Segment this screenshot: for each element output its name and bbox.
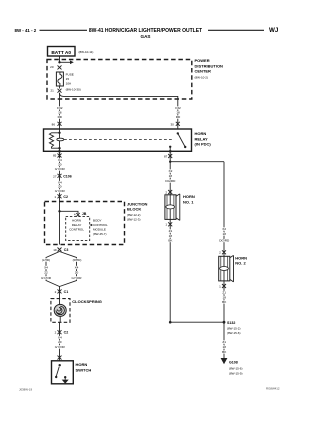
horn switch box — [52, 361, 74, 384]
svg-text:NO. 1: NO. 1 — [183, 199, 194, 204]
svg-text:DG/RD: DG/RD — [219, 239, 230, 243]
svg-text:8W - 41 - 2: 8W - 41 - 2 — [15, 28, 37, 33]
connector terminal at fuse bottom — [58, 89, 62, 93]
svg-text:18: 18 — [58, 111, 62, 115]
relay coil — [49, 133, 59, 148]
svg-text:(8W-15-6): (8W-15-6) — [227, 331, 240, 335]
svg-text:C3: C3 — [64, 248, 69, 252]
svg-text:Z1: Z1 — [222, 340, 226, 344]
svg-text:X2: X2 — [169, 169, 173, 173]
svg-text:FUSE: FUSE — [66, 73, 74, 77]
svg-text:(8W-10-2): (8W-10-2) — [195, 75, 208, 79]
wire through junction block — [59, 202, 61, 245]
svg-text:BATT A0: BATT A0 — [51, 50, 71, 56]
svg-text:X4: X4 — [75, 265, 79, 269]
svg-text:RELAY: RELAY — [72, 223, 82, 227]
svg-text:HORN: HORN — [76, 362, 88, 367]
svg-text:C106: C106 — [63, 175, 72, 179]
ground in horn switch — [62, 380, 69, 384]
svg-text:RD: RD — [58, 115, 63, 119]
svg-text:HORN: HORN — [183, 194, 195, 199]
svg-text:DISTRIBUTION: DISTRIBUTION — [195, 63, 224, 68]
svg-text:22: 22 — [44, 271, 48, 275]
svg-text:20: 20 — [58, 162, 62, 166]
svg-text:19: 19 — [53, 248, 57, 252]
svg-text:X4: X4 — [44, 265, 48, 269]
svg-text:F32: F32 — [57, 106, 63, 110]
wire RHD branch — [60, 252, 77, 287]
svg-text:15: 15 — [66, 77, 70, 81]
svg-text:RG8W412: RG8W412 — [266, 387, 280, 391]
svg-text:BLOCK: BLOCK — [127, 207, 141, 212]
svg-text:20: 20 — [58, 185, 62, 189]
svg-text:BODY: BODY — [93, 218, 102, 222]
clockspring box — [51, 299, 70, 323]
arrow to BCM — [90, 224, 92, 226]
svg-text:(IN PDC): (IN PDC) — [195, 142, 212, 147]
svg-text:18: 18 — [169, 174, 173, 178]
fuse 15 10A — [56, 72, 63, 86]
wire LHD branch — [46, 252, 60, 287]
connector terminal pin 85 — [58, 154, 62, 158]
svg-text:JUNCTION: JUNCTION — [127, 201, 148, 206]
relay contact 87 — [169, 146, 171, 148]
horn no.1 — [165, 195, 176, 220]
clockspring coil — [59, 299, 61, 305]
svg-text:18: 18 — [222, 295, 226, 299]
svg-text:DG/RD: DG/RD — [165, 179, 176, 183]
svg-text:F32: F32 — [175, 106, 181, 110]
svg-text:GY/OR: GY/OR — [72, 276, 83, 280]
wire BATT A0 to PDC — [59, 56, 61, 62]
svg-text:CENTER: CENTER — [195, 69, 212, 74]
horn relay box — [44, 129, 192, 151]
svg-text:J038W-19: J038W-19 — [19, 388, 33, 392]
svg-text:21: 21 — [50, 88, 54, 92]
svg-text:G108: G108 — [229, 361, 238, 365]
svg-text:(8W-12-2): (8W-12-2) — [127, 213, 140, 217]
svg-text:18: 18 — [176, 111, 180, 115]
svg-text:GAS: GAS — [141, 34, 151, 39]
relay coil branch wire — [59, 129, 61, 151]
svg-text:85: 85 — [53, 154, 57, 158]
svg-text:X4: X4 — [58, 335, 62, 339]
relay pin exit marks — [58, 150, 60, 152]
connector terminal at fuse top — [58, 65, 62, 69]
svg-text:JB: JB — [82, 212, 87, 216]
svg-text:CONTROL: CONTROL — [69, 227, 84, 231]
ground G108 — [221, 358, 228, 364]
svg-text:Z1: Z1 — [222, 291, 226, 295]
node JB branch — [58, 210, 60, 212]
relay blade — [178, 133, 185, 147]
svg-text:S132: S132 — [227, 321, 235, 325]
svg-text:18: 18 — [222, 232, 226, 236]
node splice to horn 2 — [169, 161, 171, 163]
svg-text:RELAY: RELAY — [195, 136, 209, 141]
svg-text:(8W-15-6): (8W-15-6) — [229, 367, 242, 371]
connector C2 clockspring — [59, 322, 61, 361]
svg-text:WJ: WJ — [269, 27, 279, 34]
node feed splice in PDC — [58, 61, 60, 63]
power distribution center box — [47, 60, 192, 100]
svg-text:(8W-12-3): (8W-12-3) — [127, 217, 140, 221]
header right rule — [208, 29, 264, 31]
svg-text:GY/OR: GY/OR — [55, 167, 66, 171]
wire feed arrow to other circuits — [60, 61, 71, 63]
svg-text:(8W-10-30): (8W-10-30) — [66, 88, 81, 92]
svg-text:SWITCH: SWITCH — [76, 367, 92, 372]
svg-text:CONTROL: CONTROL — [93, 223, 108, 227]
svg-text:(8W-15-2): (8W-15-2) — [227, 326, 240, 330]
svg-text:87: 87 — [164, 154, 168, 158]
BCM inner box — [66, 217, 90, 241]
svg-text:86: 86 — [52, 122, 56, 126]
svg-text:(LHD): (LHD) — [42, 258, 50, 262]
svg-text:Z1: Z1 — [169, 229, 173, 233]
connector C1 clockspring — [59, 287, 61, 299]
svg-text:(8W-10-11): (8W-10-11) — [79, 50, 94, 54]
svg-text:RD: RD — [176, 115, 181, 119]
horn switch contacts — [59, 364, 61, 366]
svg-text:20: 20 — [50, 65, 54, 69]
wire horn 2 ground — [223, 281, 225, 358]
svg-text:HORN: HORN — [195, 131, 207, 136]
horn no.2 — [219, 256, 230, 281]
svg-text:GY/OR: GY/OR — [41, 276, 52, 280]
connector terminal pin 30 — [176, 122, 180, 126]
svg-text:X2: X2 — [222, 227, 226, 231]
svg-text:20: 20 — [75, 271, 79, 275]
wire fuse output down — [59, 86, 61, 89]
relay armature pivot — [57, 138, 64, 141]
splice S132 — [223, 321, 226, 324]
wire horn 1 ground — [169, 219, 171, 322]
svg-text:GY/OR: GY/OR — [55, 189, 66, 193]
svg-text:CLOCKSPRING: CLOCKSPRING — [72, 299, 102, 304]
svg-text:GY/OR: GY/OR — [55, 345, 66, 349]
junction block box — [45, 202, 125, 245]
wire to horn 2 — [223, 162, 225, 257]
svg-text:NO. 2: NO. 2 — [235, 261, 246, 266]
svg-text:18: 18 — [222, 345, 226, 349]
svg-text:C2: C2 — [63, 195, 68, 199]
relay contact 30 — [177, 132, 179, 134]
svg-text:(8W-15-9): (8W-15-9) — [229, 372, 242, 376]
svg-text:(RHD): (RHD) — [73, 258, 82, 262]
header left rule — [40, 29, 88, 31]
wire relay 85 down to junction block — [59, 151, 61, 201]
svg-text:C2: C2 — [64, 331, 69, 335]
svg-text:20: 20 — [58, 340, 62, 344]
svg-text:30: 30 — [170, 122, 174, 126]
relay linkage dashed — [64, 139, 174, 141]
svg-text:HORN: HORN — [235, 255, 247, 260]
svg-text:C1: C1 — [64, 290, 69, 294]
svg-text:POWER: POWER — [195, 58, 210, 63]
svg-text:18: 18 — [169, 234, 173, 238]
svg-text:27: 27 — [53, 175, 57, 179]
svg-text:10A: 10A — [66, 82, 72, 86]
svg-text:HORN: HORN — [72, 218, 81, 222]
connector terminal horn switch — [58, 356, 62, 360]
wire relay 87 to horns — [169, 151, 171, 195]
connector terminal pin 86 — [58, 122, 62, 126]
svg-text:(8W-45-7): (8W-45-7) — [93, 232, 106, 236]
wire branch to relay contact — [60, 93, 178, 129]
svg-text:MODULE: MODULE — [93, 227, 106, 231]
battery feed BATT A0 — [48, 47, 76, 57]
